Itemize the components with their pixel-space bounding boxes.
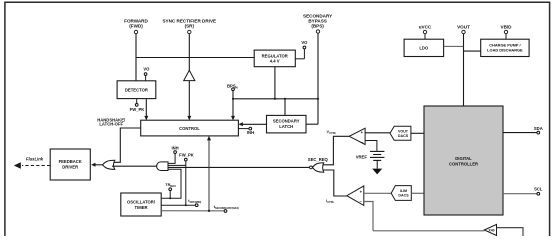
node tSECONDARY(MAX) [161, 205, 239, 212]
svg-text:CONTROLLER: CONTROLLER [449, 162, 478, 167]
wire SR buffer to CONTROL with arrow [187, 81, 191, 121]
and gate (inhibit logic) [157, 162, 168, 171]
node VO (detector) [143, 66, 150, 80]
wire handshake control to OR gate [113, 128, 140, 162]
wire comparator top input from VOUT DACS [365, 132, 390, 134]
wire VB/D to charge pump [505, 34, 507, 40]
svg-text:OFF(MIN): OFF(MIN) [190, 200, 202, 204]
svg-text:VO: VO [301, 40, 308, 45]
wire VOUT DACS to digital controller [411, 132, 424, 134]
comparator VOUT (points left) [349, 128, 365, 144]
svg-text:CTRL: CTRL [327, 200, 334, 204]
regulator block 4.4V [254, 50, 295, 67]
svg-text:CONTROL: CONTROL [179, 126, 200, 131]
charge pump / load discharge block [481, 39, 529, 56]
node ICTRL label [326, 199, 335, 204]
svg-text:VO: VO [143, 66, 150, 71]
digital controller block [424, 106, 503, 215]
secondary latch block [267, 115, 307, 132]
node FW_PK (detector output) [130, 99, 145, 112]
svg-text:(SR): (SR) [185, 24, 195, 29]
wire FWD to regulator horizontal [136, 57, 254, 59]
svg-text:REGULATOR: REGULATOR [262, 53, 288, 58]
wire SEC_REQ long bus to AND input [168, 166, 310, 168]
svg-text:VREF: VREF [356, 155, 368, 160]
svg-text:SDA: SDA [534, 126, 543, 131]
junction regulator drop [274, 98, 276, 100]
node TR(MAX) [165, 183, 176, 200]
amplifier X40 [484, 224, 496, 235]
junction BPS_IN at bus [232, 98, 234, 100]
svg-text:VOUT: VOUT [457, 25, 470, 30]
svg-text:DIGITAL: DIGITAL [455, 156, 472, 161]
wire AND output to OR gate [112, 165, 157, 167]
svg-text:TIMER: TIMER [134, 205, 147, 210]
svg-text:LOAD DISCHARGE: LOAD DISCHARGE [487, 48, 523, 53]
ground (VREF return) [372, 160, 382, 174]
svg-text:uVCC: uVCC [419, 25, 432, 30]
svg-text:(BPS): (BPS) [311, 24, 324, 29]
wire FWD vertical [135, 34, 137, 81]
svg-text:DRIVER: DRIVER [62, 165, 78, 170]
pin SECONDARY BYPASS (BPS) [303, 14, 332, 34]
svg-text:FEEDBACK: FEEDBACK [59, 159, 82, 164]
node BPS_IN [227, 84, 238, 91]
node INH (and gate input) [168, 146, 179, 164]
comparator ILIM (points left) [347, 186, 364, 206]
oscillator/timer block [121, 193, 161, 216]
junction latch feed at bus [284, 98, 286, 100]
svg-text:IN: IN [235, 86, 238, 90]
wire uVCC to LDO [424, 34, 426, 40]
wire ILIM comparator bottom input to X40 loop [364, 202, 373, 231]
svg-text:SECONDARY(MAX): SECONDARY(MAX) [215, 206, 239, 210]
svg-text:VOUT: VOUT [398, 129, 409, 133]
svg-text:SECONDARY: SECONDARY [273, 119, 300, 124]
nor gate SEC_REQ [308, 157, 329, 172]
wire ILIM comparator top input from ILIM DACS [364, 192, 391, 194]
pin uVCC [419, 25, 432, 34]
wire detector to CONTROL with arrow [144, 99, 148, 121]
wire bottom loop to X40 [373, 230, 484, 232]
ILIM DACS block [391, 186, 411, 201]
svg-text:SCL: SCL [534, 187, 543, 192]
svg-text:(FWD): (FWD) [129, 24, 143, 29]
node VCTRL label [327, 130, 337, 135]
svg-text:OSCILLATOR/: OSCILLATOR/ [127, 200, 156, 205]
svg-text:VB/D: VB/D [501, 25, 513, 30]
node tOFF(MIN) [161, 199, 201, 207]
wire latch to CONTROL with arrow [238, 122, 266, 126]
detector block [117, 81, 156, 99]
wire ICTRL comparator output to NOR bottom input [323, 170, 348, 196]
svg-text:LATCH-OFF: LATCH-OFF [99, 122, 123, 127]
wire LDO to VOUT rail [444, 45, 464, 47]
label HANDSHAKE/LATCH-OFF [97, 118, 126, 127]
node VO (regulator output) [295, 40, 308, 59]
svg-text:DACS: DACS [398, 134, 409, 138]
svg-text:MAX: MAX [170, 184, 176, 188]
svg-text:FW_PK: FW_PK [179, 153, 194, 158]
node INH (control right) [238, 127, 254, 135]
wire regulator bottom drop [274, 67, 276, 99]
svg-text:X40: X40 [488, 228, 494, 232]
svg-text:INH: INH [247, 130, 254, 135]
svg-text:DACS: DACS [398, 194, 409, 198]
control block [141, 120, 239, 136]
LDO block [404, 39, 444, 56]
svg-text:DETECTOR: DETECTOR [125, 87, 148, 92]
wire FW_PK vertical down to tOFF net [168, 161, 186, 205]
wire comparator bottom input from VREF [365, 141, 377, 151]
wire VOUT rail to charge pump [464, 50, 481, 52]
svg-text:CHARGE PUMP /: CHARGE PUMP / [489, 42, 521, 47]
svg-text:LATCH: LATCH [279, 124, 293, 129]
wire BPS_IN to CONTROL with arrow [231, 91, 235, 121]
svg-text:LDO: LDO [419, 45, 429, 50]
junction control drop at tSECONDARY net [208, 210, 210, 212]
or gate (feedback driver input) [103, 160, 115, 169]
wire bus y=98.8 [233, 98, 318, 100]
svg-text:INH: INH [171, 146, 178, 151]
wire bus to secondary latch top [284, 99, 286, 116]
wire OR output to feedback driver with arrow [91, 163, 103, 167]
junction BPS at bus [317, 98, 319, 100]
svg-text:CTRL: CTRL [329, 131, 336, 135]
pin SYNC RECTIFIER DRIVE (SR) [162, 19, 216, 34]
battery VREF [356, 151, 385, 160]
node FluxLink (dashed output with arrow) [14, 157, 50, 169]
wire VOUT vertical to digital controller [463, 34, 465, 106]
svg-text:FW_PK: FW_PK [130, 107, 145, 112]
wire X40 input from below frame [497, 228, 524, 237]
wire oscillator net up to CONTROL with arrow [207, 136, 211, 211]
wire BPS vertical [306, 33, 318, 124]
wire SR vertical upper [188, 34, 190, 71]
wire ILIM DACS to digital controller [411, 192, 424, 194]
svg-text:SEC_REQ: SEC_REQ [308, 157, 329, 162]
pin VOUT [457, 25, 470, 34]
wire VCTRL comparator output to NOR top input [323, 136, 349, 165]
node SCL [503, 187, 543, 195]
svg-text:4.4 V: 4.4 V [270, 59, 280, 64]
node SDA [503, 126, 543, 134]
buffer amplifier in SR path [184, 70, 195, 80]
svg-text:ILIM: ILIM [400, 189, 407, 193]
pin FORWARD (FWD) [124, 19, 148, 34]
wire AND bottom input from oscillator [161, 169, 181, 198]
feedback driver block [50, 149, 90, 180]
node FW_PK (and gate input) [179, 153, 194, 161]
VOUT DACS block [390, 126, 411, 140]
pin VB/D [501, 25, 513, 34]
svg-text:FluxLink: FluxLink [26, 157, 44, 162]
